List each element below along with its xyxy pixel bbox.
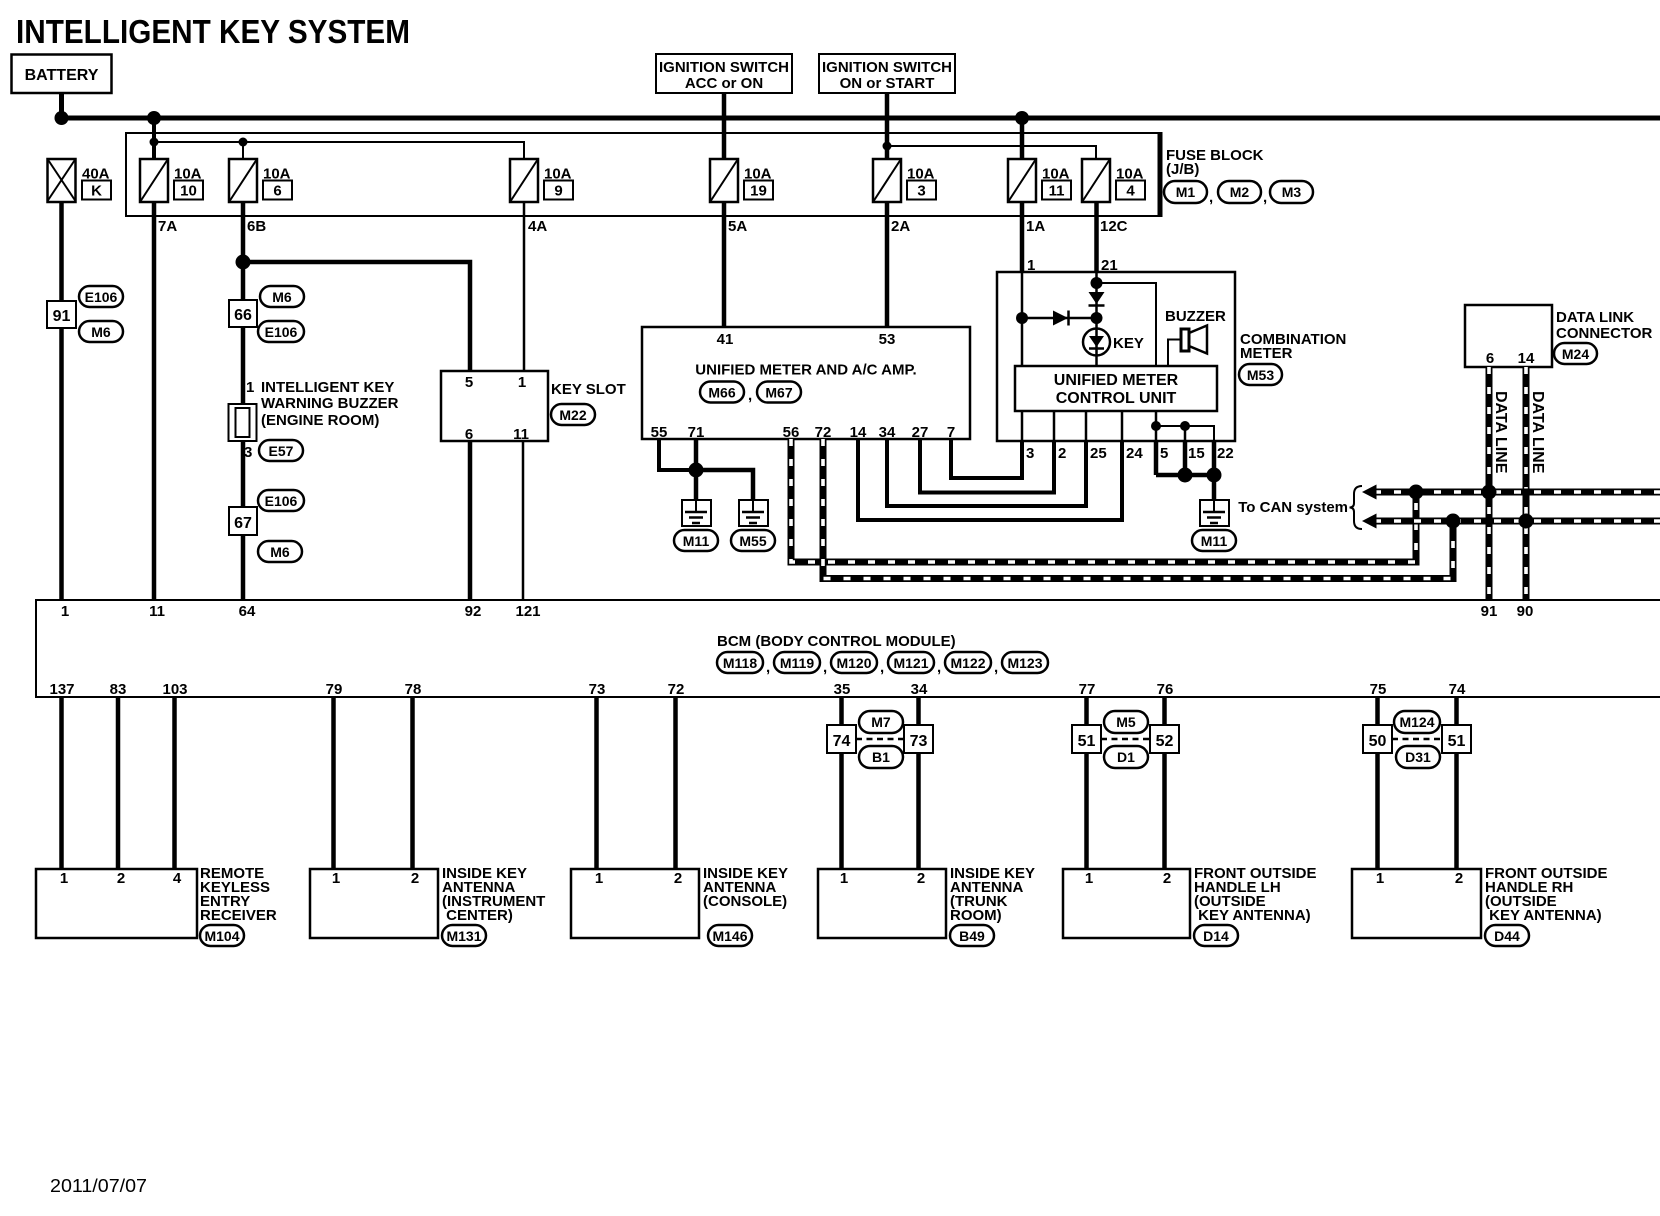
- wire feeder line fuse 3 to fuse 4: [887, 146, 1096, 160]
- connector B1: [859, 746, 903, 768]
- wire meter pin 55 to ground junction: [659, 439, 696, 470]
- connector E106: [258, 490, 304, 511]
- connector M1: [1164, 181, 1213, 206]
- svg-text:91: 91: [53, 308, 71, 325]
- svg-text:IGNITION SWITCH: IGNITION SWITCH: [659, 59, 789, 76]
- svg-text:ON or START: ON or START: [840, 75, 935, 92]
- svg-text:To CAN system: To CAN system: [1238, 499, 1348, 516]
- svg-text:,: ,: [994, 659, 998, 676]
- svg-text:22: 22: [1217, 445, 1234, 462]
- wire BCM 103 to receiver pin 4: [172, 697, 177, 869]
- svg-text:D14: D14: [1203, 928, 1229, 944]
- svg-text:E106: E106: [85, 289, 118, 305]
- svg-text:51: 51: [1448, 733, 1466, 750]
- svg-text:M120: M120: [836, 655, 871, 671]
- wire pin 15 drop: [1184, 426, 1187, 441]
- svg-text:56: 56: [783, 424, 800, 441]
- wire junction to ground M11: [694, 470, 699, 500]
- svg-text:M131: M131: [446, 928, 481, 944]
- connector pin 66 M6/E106 pass-through: [229, 300, 257, 327]
- svg-text:M123: M123: [1007, 655, 1042, 671]
- ignition switch ON or START: [819, 54, 955, 93]
- wire battery to bus: [59, 93, 64, 118]
- svg-text:4: 4: [173, 870, 182, 887]
- svg-text:,: ,: [937, 659, 941, 676]
- svg-text:83: 83: [110, 681, 127, 698]
- wire 5A fuse 19 to meter pin 41: [722, 201, 727, 327]
- key slot M22: [441, 371, 626, 443]
- connector E106: [258, 321, 304, 342]
- wire meter pin 14 to CM pin 24: [858, 439, 1122, 520]
- svg-text:M119: M119: [780, 655, 814, 671]
- svg-text:KEY ANTENNA): KEY ANTENNA): [1485, 907, 1602, 924]
- wire BCM 74 to RH handle pin 2: [1454, 697, 1459, 869]
- wire ignition ACC to fuse 19: [722, 93, 727, 160]
- unified meter control unit: [1015, 366, 1217, 411]
- connector M6: [260, 286, 304, 307]
- svg-text:76: 76: [1157, 681, 1174, 698]
- svg-text:4: 4: [1126, 183, 1135, 200]
- svg-text:M11: M11: [683, 533, 710, 549]
- svg-text:73: 73: [910, 733, 928, 750]
- svg-text:D44: D44: [1494, 928, 1520, 944]
- fusible link K 40A: [48, 159, 112, 202]
- wire feeder drop to fuse 6: [242, 142, 244, 160]
- svg-text:M7: M7: [871, 714, 891, 730]
- connector M131: [442, 925, 486, 946]
- svg-text:,: ,: [880, 659, 884, 676]
- svg-text:B49: B49: [959, 928, 985, 944]
- wire pin1 to key LED: [1022, 317, 1097, 320]
- svg-text:6: 6: [1486, 350, 1494, 367]
- connector M6: [79, 321, 123, 342]
- svg-text:73: 73: [589, 681, 606, 698]
- wire branch right to control unit: [1097, 283, 1157, 366]
- fuse 11 10A: [1008, 159, 1071, 202]
- svg-text:BCM (BODY CONTROL MODULE): BCM (BODY CONTROL MODULE): [717, 633, 956, 650]
- connector M11: [674, 530, 718, 551]
- svg-text:2: 2: [1455, 870, 1463, 887]
- svg-text:137: 137: [49, 681, 74, 698]
- svg-text:M118: M118: [723, 655, 757, 671]
- svg-text:121: 121: [515, 603, 540, 620]
- svg-text:,: ,: [766, 659, 770, 676]
- svg-text:,: ,: [748, 387, 752, 404]
- wire 4A fuse 9 to key slot pin 1: [523, 201, 526, 371]
- wire BCM 72 to console antenna pin 2: [673, 697, 678, 869]
- connector D44: [1485, 925, 1529, 946]
- svg-text:9: 9: [554, 183, 562, 200]
- wire BCM 73 to console antenna pin 1: [594, 697, 599, 869]
- connector M121: [888, 652, 941, 676]
- key LED indicator: [1083, 329, 1144, 356]
- wire bus drop to fuse 11: [1020, 118, 1025, 160]
- svg-text:UNIFIED METER: UNIFIED METER: [1054, 372, 1179, 389]
- svg-text:52: 52: [1156, 733, 1174, 750]
- connector pin 91 E106/M6 pass-through: [47, 301, 76, 328]
- connector D31: [1396, 746, 1440, 768]
- node feeder at fuse 6: [239, 138, 248, 147]
- wire 7A fuse 10 to BCM pin 11: [152, 201, 157, 600]
- svg-text:11: 11: [1049, 183, 1065, 200]
- arrow CAN lower: [1362, 514, 1377, 529]
- svg-text:INTELLIGENT KEY SYSTEM: INTELLIGENT KEY SYSTEM: [16, 14, 410, 51]
- connector M120: [831, 652, 884, 676]
- data link connector M24: [1465, 305, 1653, 367]
- battery: [12, 55, 112, 94]
- ignition switch ACC or ON: [656, 54, 792, 93]
- svg-text:3: 3: [244, 444, 252, 461]
- buzzer in combination meter: [1165, 308, 1226, 366]
- connector M22: [551, 404, 595, 425]
- svg-text:M24: M24: [1562, 346, 1589, 362]
- connector M3: [1270, 181, 1313, 203]
- connector pin 52 M5/D1: [1150, 725, 1179, 753]
- svg-text:M2: M2: [1230, 184, 1250, 200]
- ground M55: [739, 500, 768, 526]
- connector M53: [1239, 364, 1282, 385]
- svg-text:2: 2: [1163, 870, 1171, 887]
- svg-text:72: 72: [668, 681, 685, 698]
- wire key slot pin 6 to BCM pin 92: [468, 441, 473, 600]
- wire harness split M7/B1: [856, 738, 904, 741]
- svg-text:11: 11: [513, 426, 529, 443]
- connector M119: [774, 652, 827, 676]
- intelligent key warning buzzer E57: [229, 379, 399, 441]
- svg-text:M55: M55: [739, 533, 766, 549]
- node link at pin 15: [1180, 421, 1190, 431]
- wire key slot pin 11 to BCM pin 121: [522, 441, 525, 600]
- connector M6: [258, 541, 302, 562]
- remote keyless entry receiver M104: [36, 865, 277, 938]
- node CAN lower at branch: [1446, 514, 1461, 529]
- connector M124: [1394, 711, 1440, 733]
- svg-text:6: 6: [273, 183, 281, 200]
- connector M66: [700, 382, 752, 405]
- svg-text:M22: M22: [559, 407, 586, 423]
- wire ignition ON/START to fuse 3: [885, 93, 890, 160]
- svg-text:35: 35: [834, 681, 851, 698]
- svg-text:M6: M6: [270, 544, 290, 560]
- svg-text:1: 1: [1085, 870, 1093, 887]
- wire BCM 75 to RH handle pin 1: [1375, 697, 1380, 869]
- svg-text:CONNECTOR: CONNECTOR: [1556, 325, 1653, 342]
- svg-text:CENTER): CENTER): [442, 907, 513, 924]
- connector B49: [950, 925, 994, 946]
- svg-text:2: 2: [411, 870, 419, 887]
- node CAN upper at data line: [1482, 485, 1497, 500]
- svg-text:91: 91: [1481, 603, 1498, 620]
- inside key antenna console M146: [571, 865, 788, 938]
- svg-text:79: 79: [326, 681, 343, 698]
- svg-text:M146: M146: [712, 928, 747, 944]
- svg-text:1: 1: [61, 603, 69, 620]
- wire ground bus link: [1156, 473, 1214, 478]
- connector M2: [1218, 181, 1267, 206]
- wire control unit pin 24: [1121, 411, 1124, 441]
- node CAN upper at branch: [1409, 485, 1424, 500]
- svg-text:(CONSOLE): (CONSOLE): [703, 893, 787, 910]
- combination meter label: [1240, 331, 1346, 362]
- wire CM pins 5/15/22 to ground: [1154, 441, 1159, 475]
- svg-text:K: K: [91, 183, 102, 200]
- svg-text:3: 3: [917, 183, 925, 200]
- svg-text:METER: METER: [1240, 345, 1293, 362]
- wire pin 22 down: [1212, 441, 1217, 475]
- wire to ground M11: [1212, 475, 1217, 500]
- svg-text:DATA LINE: DATA LINE: [1492, 391, 1509, 474]
- node bus to fuse 11: [1015, 111, 1029, 125]
- wire meter pin 71 to ground junction: [694, 439, 699, 470]
- svg-text:2: 2: [117, 870, 125, 887]
- node at pin 15: [1178, 468, 1193, 483]
- svg-text:27: 27: [912, 424, 929, 441]
- svg-text:7A: 7A: [158, 218, 177, 235]
- svg-text:M124: M124: [1399, 714, 1434, 730]
- node feeder at fuse 3: [883, 142, 892, 151]
- svg-text:92: 92: [465, 603, 482, 620]
- svg-text:KEY SLOT: KEY SLOT: [551, 381, 626, 398]
- svg-text:74: 74: [833, 733, 851, 750]
- svg-text:34: 34: [911, 681, 928, 698]
- connector E106: [79, 286, 123, 307]
- combination meter M53 outline: [997, 272, 1235, 441]
- wire data line DLC pin 14 to BCM pin 90: [1523, 367, 1530, 600]
- svg-text:14: 14: [850, 424, 867, 441]
- svg-text:6: 6: [465, 426, 473, 443]
- svg-text:CONTROL UNIT: CONTROL UNIT: [1056, 390, 1177, 407]
- wire control unit pin 2: [1053, 411, 1056, 441]
- svg-text:M6: M6: [272, 289, 292, 305]
- svg-text:D1: D1: [1117, 749, 1135, 765]
- svg-text:51: 51: [1078, 733, 1096, 750]
- svg-text:1: 1: [518, 374, 526, 391]
- brace to CAN: [1350, 486, 1363, 529]
- svg-text:7: 7: [947, 424, 955, 441]
- wire control unit pin 5: [1155, 411, 1158, 441]
- node ground junction: [689, 463, 704, 478]
- svg-text:11: 11: [149, 603, 165, 620]
- svg-text:ROOM): ROOM): [950, 907, 1002, 924]
- svg-text:KEY ANTENNA): KEY ANTENNA): [1194, 907, 1311, 924]
- svg-text:1: 1: [595, 870, 603, 887]
- svg-text:,: ,: [1263, 189, 1267, 206]
- svg-text:1: 1: [1376, 870, 1384, 887]
- svg-text:90: 90: [1517, 603, 1534, 620]
- svg-text:WARNING BUZZER: WARNING BUZZER: [261, 395, 399, 412]
- wire CAN upper line: [1374, 489, 1660, 496]
- svg-text:34: 34: [879, 424, 896, 441]
- node feeder at fuse 10: [150, 138, 159, 147]
- wire internal link 5-15-22: [1156, 426, 1214, 441]
- svg-text:2: 2: [1058, 445, 1066, 462]
- svg-text:ACC or ON: ACC or ON: [685, 75, 763, 92]
- svg-text:5: 5: [465, 374, 473, 391]
- wire 40A fusible link to BCM pin 1: [59, 201, 64, 600]
- svg-text:66: 66: [234, 307, 252, 324]
- svg-text:55: 55: [651, 424, 668, 441]
- fuse 6 10A: [229, 159, 292, 202]
- connector M118: [717, 652, 770, 676]
- svg-text:E106: E106: [265, 324, 298, 340]
- connector M122: [945, 652, 998, 676]
- svg-text:41: 41: [717, 331, 734, 348]
- svg-text:RECEIVER: RECEIVER: [200, 907, 277, 924]
- connector pin 74 M7/B1: [827, 725, 856, 753]
- wire BCM 78 to antenna pin 2: [410, 697, 415, 869]
- wire meter pin 7 to CM pin 3: [951, 439, 1022, 478]
- node at pin 22: [1207, 468, 1222, 483]
- svg-text:M121: M121: [893, 655, 928, 671]
- fuse 9 10A: [510, 159, 573, 202]
- svg-text:B1: B1: [872, 749, 890, 765]
- svg-text:M53: M53: [1247, 367, 1274, 383]
- connector M146: [708, 925, 752, 946]
- svg-text:75: 75: [1370, 681, 1387, 698]
- connector pin 50 M124/D31: [1363, 725, 1392, 753]
- wire bus drop to fuse row: [152, 118, 156, 160]
- svg-text:4A: 4A: [528, 218, 547, 235]
- connector pin 67 E106/M6 pass-through: [229, 507, 257, 535]
- svg-text:3: 3: [1026, 445, 1034, 462]
- svg-text:M6: M6: [91, 324, 111, 340]
- svg-text:2: 2: [917, 870, 925, 887]
- fuse block J/B outline: [126, 132, 1160, 217]
- svg-text:15: 15: [1188, 445, 1205, 462]
- wire battery supply bus: [59, 116, 1660, 121]
- BCM body control module box: [36, 600, 1660, 697]
- svg-text:M3: M3: [1282, 184, 1302, 200]
- front outside handle LH D14: [1063, 865, 1317, 938]
- connector M11: [1192, 530, 1236, 551]
- inside key antenna trunk room B49: [818, 865, 1035, 938]
- connector M5: [1104, 711, 1148, 733]
- wire branch to key slot pin 5: [243, 262, 470, 371]
- svg-text:1A: 1A: [1026, 218, 1045, 235]
- wire control unit pin 3: [1021, 411, 1024, 441]
- svg-text:1: 1: [246, 379, 254, 396]
- unified meter and A/C amp M66/M67: [642, 327, 970, 441]
- node 6B branch to key slot: [236, 255, 251, 270]
- connector M123: [1002, 652, 1048, 673]
- svg-text:1: 1: [332, 870, 340, 887]
- svg-text:25: 25: [1090, 445, 1107, 462]
- svg-text:M122: M122: [950, 655, 985, 671]
- wire pin 15 down: [1183, 441, 1188, 475]
- svg-text:M66: M66: [708, 385, 735, 401]
- svg-text:IGNITION SWITCH: IGNITION SWITCH: [822, 59, 952, 76]
- connector M7: [859, 711, 903, 733]
- wire BCM 137 to receiver pin 1: [59, 697, 64, 869]
- node branch to control unit: [1091, 277, 1103, 289]
- svg-text:BUZZER: BUZZER: [1165, 308, 1226, 325]
- svg-text:M1: M1: [1176, 184, 1196, 200]
- node battery junction: [55, 111, 69, 125]
- svg-text:E106: E106: [265, 493, 298, 509]
- wire data line DLC pin 6 to BCM pin 91: [1486, 367, 1493, 600]
- node diode junction: [1091, 312, 1103, 324]
- connector M55: [731, 530, 775, 551]
- connector M104: [200, 925, 244, 946]
- wire junction to ground M55: [696, 470, 753, 500]
- node link at pin 5: [1151, 421, 1161, 431]
- connector pin 73 M7/B1: [904, 725, 933, 753]
- connector pin 51 M5/D1: [1072, 725, 1101, 753]
- wire 2A fuse 3 to meter pin 53: [885, 201, 890, 327]
- svg-text:78: 78: [405, 681, 422, 698]
- svg-text:E57: E57: [269, 443, 294, 459]
- fuse 4 10A: [1082, 159, 1145, 202]
- svg-text:2A: 2A: [891, 218, 910, 235]
- svg-text:74: 74: [1449, 681, 1466, 698]
- node CAN lower at data line: [1519, 514, 1534, 529]
- svg-text:77: 77: [1079, 681, 1096, 698]
- svg-text:DATA LINE: DATA LINE: [1529, 391, 1546, 474]
- svg-text:5: 5: [1160, 445, 1168, 462]
- svg-text:14: 14: [1518, 350, 1535, 367]
- wire BCM 35 to trunk antenna pin 1: [839, 697, 844, 869]
- connector D1: [1104, 746, 1148, 768]
- wire 12C fuse 4 to meter pin 21: [1094, 201, 1099, 272]
- wire meter pin 21 internal: [1095, 272, 1098, 366]
- svg-text:64: 64: [239, 603, 256, 620]
- svg-text:M104: M104: [204, 928, 239, 944]
- wire BCM 76 to LH handle pin 2: [1162, 697, 1167, 869]
- fuse 3 10A: [873, 159, 936, 202]
- svg-text:M5: M5: [1116, 714, 1136, 730]
- svg-text:M67: M67: [765, 385, 792, 401]
- svg-text:2011/07/07: 2011/07/07: [50, 1176, 147, 1196]
- svg-text:D31: D31: [1405, 749, 1431, 765]
- wire CAN-H from meter pin 56: [791, 439, 1416, 562]
- wire meter pin 27 to CM pin 2: [920, 439, 1054, 493]
- node bus to fuse 10: [147, 111, 161, 125]
- front outside handle RH D44: [1352, 865, 1608, 938]
- ground M11: [682, 500, 711, 526]
- arrow CAN upper: [1362, 485, 1377, 500]
- svg-text:BATTERY: BATTERY: [25, 67, 99, 84]
- wire BCM 79 to antenna pin 1: [331, 697, 336, 869]
- connector E57: [259, 440, 303, 461]
- svg-text:INTELLIGENT KEY: INTELLIGENT KEY: [261, 379, 394, 396]
- svg-text:(J/B): (J/B): [1166, 161, 1199, 178]
- svg-text:12C: 12C: [1100, 218, 1128, 235]
- connector D14: [1194, 925, 1238, 946]
- wire control unit pin 25: [1085, 411, 1088, 441]
- svg-text:10: 10: [180, 183, 197, 200]
- ground M11 right: [1200, 500, 1229, 526]
- wire CAN lower line: [1374, 518, 1660, 525]
- inside key antenna instrument center M131: [310, 865, 545, 938]
- wire 1A fuse 11 to meter pin 1: [1020, 201, 1025, 272]
- connector M24: [1554, 343, 1597, 364]
- connector pin 51 M124/D31: [1442, 725, 1471, 753]
- svg-text:67: 67: [234, 515, 252, 532]
- svg-text:M11: M11: [1201, 533, 1228, 549]
- fuse 10 10A: [140, 159, 203, 202]
- wire fuse feeder line to fuse 9: [154, 142, 524, 160]
- fuse 19 10A: [710, 159, 773, 202]
- fuse block label: [1166, 147, 1264, 178]
- diode D2 right: [1053, 311, 1069, 326]
- diode D1 down: [1089, 292, 1105, 306]
- svg-text:24: 24: [1126, 445, 1143, 462]
- wire harness split M5/D1: [1101, 738, 1150, 741]
- svg-text:53: 53: [879, 331, 896, 348]
- node on pin 1 wire: [1016, 312, 1028, 324]
- svg-text:UNIFIED METER AND A/C AMP.: UNIFIED METER AND A/C AMP.: [695, 362, 916, 379]
- wire BCM 34 to trunk antenna pin 2: [916, 697, 921, 869]
